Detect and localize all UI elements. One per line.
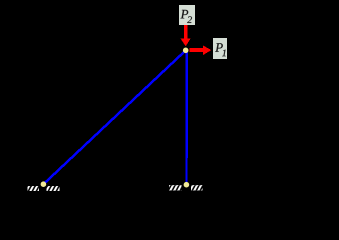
force arrow P1 (horizontal, pointing right from top node) [190, 46, 212, 55]
ground hatching right support [169, 185, 202, 190]
force arrow P2 (vertical, pointing down at top node) [180, 25, 190, 47]
node: top loaded node [183, 48, 189, 54]
node: left support pin [41, 181, 47, 187]
wire: diagonal bar member from left support to top node [43, 50, 185, 184]
label box P1 [213, 38, 227, 59]
ground hatching left support [27, 186, 59, 191]
node: right support pin [184, 182, 190, 188]
wire: vertical bar member from right support to top node [185, 50, 188, 185]
label box P2 [179, 5, 195, 25]
